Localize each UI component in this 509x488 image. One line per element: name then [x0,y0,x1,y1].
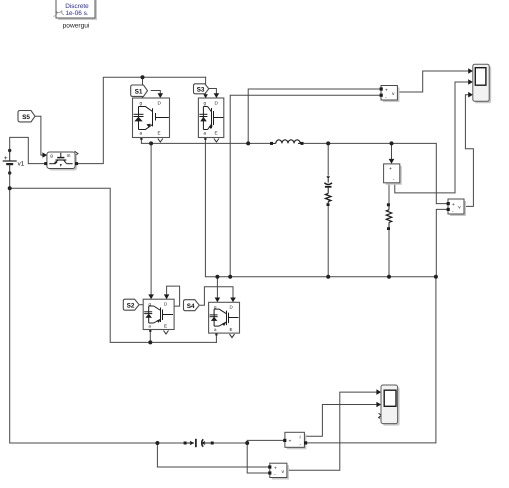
arrow into S3 C [214,93,220,98]
wire inductor out to current meas tap [302,143,447,203]
svg-text:a: a [140,131,143,136]
wire voltage meas 2 minus down to lower bus [436,209,446,276]
svg-text:powergui: powergui [63,23,90,30]
wire midpoint bus drop to S2 top-left [150,143,152,296]
From tag S1 [131,85,148,96]
wire tap down into current meas 1 [391,143,393,159]
wire cap right tap to vmeas B minus [247,443,268,473]
scope 1 [473,64,491,103]
junction at v1 minus rail branch [8,186,12,190]
IGBT block S2 [143,299,174,329]
svg-text:Discrete: Discrete [65,3,89,10]
wire lower bus drop to S4 top-left [216,277,218,300]
wire S2 E loop to S2 top-right [167,286,180,306]
unconnected m marker under S4 [230,334,235,338]
arrow into S2 top-left [148,294,154,299]
junction lower bus to R load bottom [387,275,391,279]
connected port stubs [140,138,217,336]
wire current meas A minus return to lower bus [307,277,436,443]
arrow into S2 top-right [164,294,170,299]
From tag S5 [18,110,35,121]
horizontal capacitor branch [184,439,214,447]
junction lower bus to voltage meas minus [228,275,232,279]
From tag S4 [184,300,200,311]
wire voltage meas 1 out to scope1 in1 [399,71,470,92]
inductor [270,140,304,145]
wire RC branch top [327,143,329,175]
wire gate bus drop to S1 g [142,77,144,98]
svg-text:S4: S4 [187,303,195,310]
wire S2 tag to S2 g [140,304,143,306]
junction on gate bus at S1 g [141,75,145,79]
unconnected input marker scope2 [379,413,382,418]
wire R load to lower bus [388,228,390,277]
wire capacitor to current meas A plus [214,440,284,443]
svg-text:E: E [164,324,167,329]
arrow into S1 g [140,94,145,98]
voltage measurement B [268,463,289,479]
junction lower bus to S4 [215,275,219,279]
series RC load branch [324,176,332,206]
wire S5 tag to switch gate [35,116,43,155]
wire lower bus tap up to voltage meas minus [230,95,379,277]
wire S1 E to midpoint bus and inductor [141,138,271,144]
svg-text:S2: S2 [127,303,135,310]
wire v1 minus big left loop to capacitor line [10,173,184,443]
wire S2 bottom to ground rail [149,330,151,343]
svg-text:i: i [300,435,301,441]
svg-text:D: D [230,305,233,310]
svg-text:S5: S5 [22,114,30,121]
svg-text:E: E [215,131,218,136]
svg-text:E: E [158,131,161,136]
unconnected m marker under S2 [164,331,169,335]
wire S3 E down to lower bus [205,138,436,277]
junction capacitor line left tap [155,441,159,445]
arrow into scope2 in1 [376,389,381,395]
scope 2 [381,385,400,426]
arrow into scope1 in1 [468,68,473,74]
unconnected m marker on switch block [75,151,78,156]
From tag S3 [194,84,209,94]
IGBT block S4 [209,302,240,333]
svg-text:+: + [452,202,455,208]
svg-text:D: D [164,302,167,307]
svg-text:+: + [289,439,292,445]
wire S4 bottom to ground rail [215,333,217,342]
wire S4 tag loop to S4 top-right [200,287,233,306]
voltage measurement 2 [447,199,466,216]
svg-text:+: + [389,166,392,172]
IGBT block S1 [133,98,170,138]
voltage measurement 1 [380,86,400,103]
arrow into S3 g [203,94,208,98]
wire v1 minus branch to ground rail [10,188,217,342]
wire voltage meas 2 out to scope1 in3 [465,95,473,207]
open port markers [75,139,382,419]
svg-text:g: g [50,153,53,158]
svg-text:+: + [385,88,388,94]
svg-text:m: m [67,153,71,158]
arrowheads [42,68,473,407]
wire current meas 1 signal to scope1 in2 [395,82,470,193]
junction lower bus to RC branch bottom [326,275,330,279]
powergui block [54,0,98,30]
arrow into S1 C [158,93,164,98]
wire switch E to top gate bus [77,77,206,163]
junction midpoint bus to voltage meas plus [246,141,250,145]
wire cap left tap to vmeas B plus [157,443,268,467]
voltage source v1 [3,149,25,175]
arrow into switch g [42,152,47,157]
svg-text:E: E [230,327,233,332]
wire vmeas B out to scope2 in1 [288,392,379,470]
junction ground rail at S2 emitter [148,340,152,344]
wire v1 plus to switch C input [10,137,46,163]
wire RC branch bottom [327,206,329,276]
switch IGBT block near v1 [44,152,78,171]
unconnected m marker under S3 [214,139,219,143]
junction midpoint bus to current meas 1 [390,141,394,145]
svg-text:g: g [140,101,143,106]
junction midpoint bus to RC branch [326,141,330,145]
svg-text:v1: v1 [18,161,25,168]
current measurement 1 [384,164,402,185]
arrow into scope1 in3 [468,92,473,98]
unconnected m marker under S1 [158,139,163,143]
wire current meas 1 to R load [388,183,390,204]
wire S3 tag to S3 C port [208,89,217,96]
svg-text:g: g [204,101,207,106]
wire midpoint tap up to voltage meas plus [248,89,379,143]
junction lower bus right end [434,275,438,279]
junction midpoint bus to S2 [149,141,153,145]
wire current meas A signal to scope2 in2 [305,405,378,437]
arrow into S4 top-left [215,298,221,303]
svg-text:S1: S1 [135,88,143,95]
wire S1 tag to S1 C port [151,91,160,96]
current measurement A [283,432,307,449]
IGBT block S3 [198,98,223,138]
wire gate bus drop to S3 g [205,77,207,98]
arrow into S4 top-right [230,298,236,303]
R load branch [386,203,391,230]
arrow into scope2 in2 [376,402,381,408]
svg-text:1e-06 s.: 1e-06 s. [65,10,88,17]
arrow into current meas 1 [389,159,395,164]
arrow into scope1 in2 [468,79,473,85]
svg-text:a: a [204,131,207,136]
svg-text:S3: S3 [197,86,205,93]
From tag S2 [123,299,139,310]
svg-text:+: + [274,466,277,472]
junction capacitor line right tap [245,441,249,445]
RC labels none [0,0,1,1]
